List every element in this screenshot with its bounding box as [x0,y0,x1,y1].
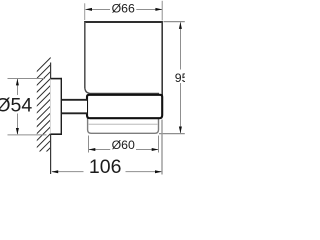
wall surface line (also 106 left extension) [50,63,52,175]
svg-text:Ø60: Ø60 [112,138,135,152]
svg-text:106: 106 [89,156,122,178]
wall rosette plate [50,78,62,135]
holder ring (side view) [87,95,162,118]
glass tumbler body [84,22,163,96]
glass bottom protruding below holder [88,110,159,133]
svg-text:Ø66: Ø66 [112,2,135,16]
svg-text:Ø54: Ø54 [0,95,32,117]
svg-text:95: 95 [175,71,185,85]
dimension Ø54 (left) [8,79,47,135]
dimension Ø60 (bottom middle) [89,136,159,153]
faint inner line under holder [88,123,158,125]
dimension Ø66 (top) [85,1,163,21]
wall arm [61,100,87,114]
dimension 106 (bottom) [52,120,162,175]
dimension 95 (right) [159,22,185,134]
wall hatching [36,58,51,163]
